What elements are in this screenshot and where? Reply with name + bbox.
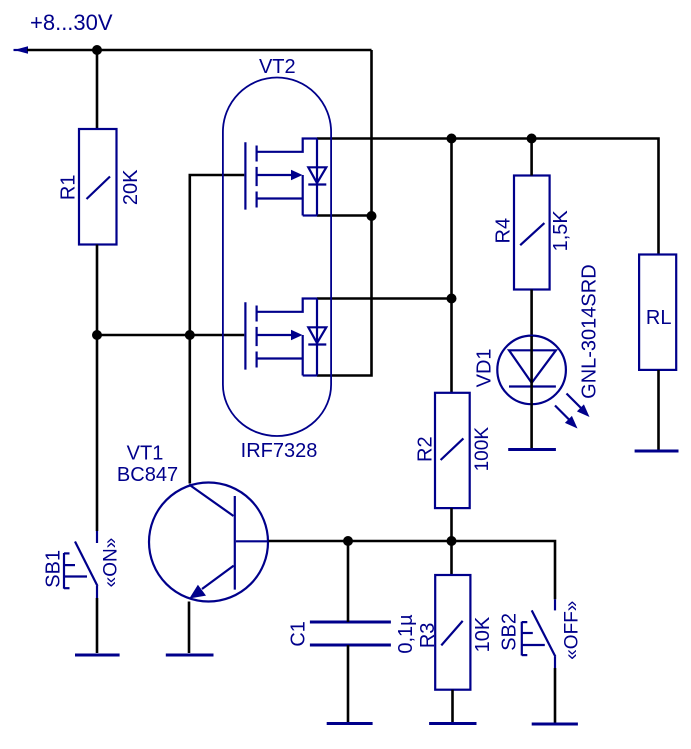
wire node A rail bbox=[317, 139, 659, 255]
wire RL to ground bbox=[657, 370, 660, 450]
mosfet VT2.2 substrate arrow bbox=[291, 330, 303, 340]
svg-text:«ON»: «ON» bbox=[101, 538, 122, 588]
capacitor C1 bbox=[310, 622, 391, 645]
transistor VT1 bbox=[149, 483, 269, 602]
wire R1 bottom to node B bbox=[96, 245, 99, 336]
resistor R2 bbox=[435, 393, 470, 508]
ground (R3) bbox=[429, 722, 476, 725]
wire lower drain rail bbox=[317, 297, 452, 300]
resistor R1 bbox=[79, 129, 117, 245]
svg-text:BC847: BC847 bbox=[117, 464, 178, 486]
svg-text:0,1µ: 0,1µ bbox=[395, 614, 417, 654]
wire upper source rail bbox=[317, 214, 372, 217]
svg-text:VT1: VT1 bbox=[127, 443, 164, 465]
svg-text:GNL-3014SRD: GNL-3014SRD bbox=[579, 264, 601, 399]
wire VD1 anode through circle bbox=[530, 336, 533, 404]
svg-text:R2: R2 bbox=[415, 436, 437, 462]
ground (C1) bbox=[327, 722, 373, 725]
svg-text:20K: 20K bbox=[120, 169, 142, 205]
ground (VD1) bbox=[508, 448, 556, 451]
mosfet VT2.1 (upper) bbox=[245, 139, 326, 216]
wire +V drop lower / elbow to lower source bbox=[317, 216, 372, 376]
svg-text:RL: RL bbox=[646, 307, 672, 329]
junction (371.5,216) bbox=[367, 211, 377, 221]
svg-text:R3: R3 bbox=[417, 623, 439, 649]
svg-text:VT2: VT2 bbox=[259, 56, 296, 78]
wire C1 top bbox=[347, 541, 350, 622]
junction (189.8,335) bbox=[185, 330, 195, 340]
wire node B to SB1 bbox=[96, 335, 99, 531]
junction (531.6,138.5) bbox=[527, 134, 537, 144]
svg-text:IRF7328: IRF7328 bbox=[241, 440, 318, 462]
pushbutton SB2 bbox=[522, 599, 556, 668]
svg-text:10K: 10K bbox=[472, 616, 494, 652]
svg-text:R4: R4 bbox=[493, 218, 515, 244]
junction (451.5,138.5) bbox=[447, 134, 457, 144]
ground (SB2) bbox=[532, 723, 578, 726]
wire +V top rail bbox=[27, 49, 372, 52]
wire gate rail horizontal bbox=[97, 334, 244, 337]
svg-text:R1: R1 bbox=[58, 175, 80, 201]
wire VT1 emitter to ground bbox=[188, 602, 191, 654]
wire node A to R4 bbox=[530, 139, 533, 176]
power arrow (left) bbox=[14, 49, 20, 51]
wire R2 to base node bbox=[450, 508, 453, 541]
resistor R3 bbox=[435, 575, 470, 690]
mosfet VT2.1 substrate arrow bbox=[291, 170, 303, 180]
junction (451.5,541) bbox=[447, 536, 457, 546]
svg-text:100K: 100K bbox=[472, 427, 493, 472]
svg-text:VD1: VD1 bbox=[473, 348, 495, 387]
svg-text:1,5K: 1,5K bbox=[550, 210, 572, 252]
junction (97,50) bbox=[92, 45, 102, 55]
wire SB1 to ground bbox=[96, 598, 99, 653]
svg-text:C1: C1 bbox=[288, 621, 310, 647]
svg-text:SB1: SB1 bbox=[43, 550, 65, 588]
ground (RL) bbox=[635, 450, 679, 453]
wire +V drop (x=371.5) bbox=[370, 50, 373, 216]
wire R3 to ground bbox=[451, 690, 454, 722]
wire base node to R3 bbox=[450, 541, 453, 575]
transistor VT1 emitter arrow bbox=[189, 585, 206, 599]
led VD1 emission arrows bbox=[555, 394, 583, 422]
wire SB2 to ground bbox=[554, 668, 557, 723]
mosfet VT2.2 (lower) bbox=[245, 299, 326, 376]
wire C1 bottom bbox=[347, 645, 350, 722]
wire gate riser / VT1 collector bbox=[190, 175, 245, 484]
wire +V to R1 bbox=[96, 50, 99, 129]
wire base rail bbox=[269, 541, 556, 599]
led VD1 bbox=[497, 336, 566, 405]
pushbutton SB1 bbox=[64, 531, 98, 598]
svg-text:+8...30V: +8...30V bbox=[30, 10, 113, 35]
junction (97,335) bbox=[92, 330, 102, 340]
wire VD1 to ground bbox=[530, 404, 533, 449]
svg-text:«OFF»: «OFF» bbox=[562, 601, 583, 660]
dual mosfet VT2 package outline bbox=[223, 77, 331, 436]
resistor R4 bbox=[514, 176, 550, 290]
junction (348,541) bbox=[343, 536, 353, 546]
ground (VT1) bbox=[166, 654, 214, 657]
ground (SB1) bbox=[75, 654, 120, 657]
resistor RL bbox=[639, 255, 676, 370]
wire R4 to VD1 bbox=[530, 290, 533, 337]
svg-text:SB2: SB2 bbox=[499, 613, 521, 651]
wire node A to R2 bbox=[450, 139, 453, 393]
junction (451.5,298.5) bbox=[447, 294, 457, 304]
